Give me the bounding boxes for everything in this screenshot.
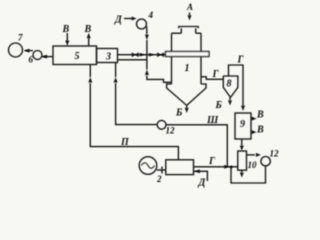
svg-text:Г: Г: [212, 69, 220, 80]
svg-text:В: В: [256, 110, 264, 121]
svg-text:4: 4: [148, 10, 154, 20]
svg-text:П: П: [120, 137, 130, 148]
svg-text:12: 12: [270, 149, 280, 159]
svg-text:А: А: [186, 2, 193, 12]
svg-text:9: 9: [240, 119, 245, 130]
svg-text:7: 7: [18, 33, 23, 43]
svg-text:Г: Г: [237, 55, 245, 66]
svg-text:В: В: [62, 24, 70, 35]
svg-text:1: 1: [185, 63, 190, 74]
svg-text:6: 6: [29, 55, 34, 65]
svg-text:8: 8: [227, 79, 232, 90]
svg-text:В: В: [256, 125, 264, 136]
svg-text:Д: Д: [198, 178, 207, 189]
svg-text:Ш: Ш: [206, 115, 219, 126]
svg-text:2: 2: [156, 174, 162, 184]
svg-text:Д: Д: [114, 15, 123, 26]
svg-text:Б: Б: [175, 108, 183, 119]
svg-text:5: 5: [75, 51, 80, 62]
svg-text:В: В: [84, 24, 92, 35]
svg-text:3: 3: [105, 52, 111, 63]
svg-text:10: 10: [248, 160, 258, 170]
svg-text:Б: Б: [215, 100, 223, 111]
svg-text:12: 12: [166, 126, 176, 136]
svg-text:Г: Г: [208, 156, 216, 167]
